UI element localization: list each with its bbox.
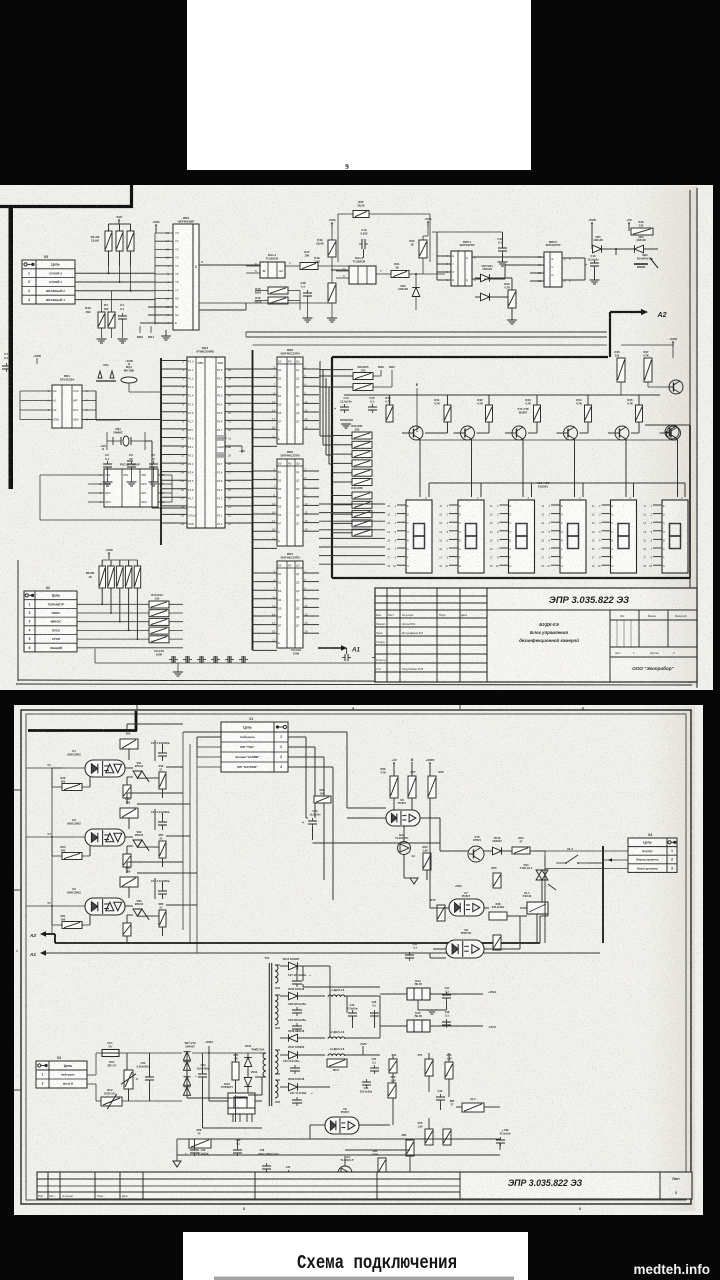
ground under C4	[118, 339, 128, 343]
arrow A1 sheet2	[40, 950, 46, 955]
wires C27 to diode rail	[296, 966, 298, 981]
wires right cluster verticals	[347, 807, 386, 809]
resistor below U2	[123, 854, 131, 867]
wires transistor bases	[447, 422, 449, 433]
node dots on X5 wires	[108, 272, 110, 274]
arrow A2 sheet2	[40, 931, 46, 936]
7-seg indicator HG6	[662, 500, 688, 573]
wires channel U3	[125, 905, 133, 907]
ground under R23	[507, 320, 517, 324]
wires U8 to A1	[430, 957, 446, 959]
wire R18 node to DA1.2	[332, 269, 348, 271]
wires right resistors	[393, 766, 395, 776]
title block row lines	[375, 617, 487, 619]
svg-text:9: 9	[345, 163, 349, 171]
wires DA2	[209, 1100, 228, 1102]
wires DD4 right pins	[225, 368, 252, 370]
title block left small rows	[375, 595, 487, 597]
ground under regulators	[427, 1010, 437, 1014]
sheet1 right border	[689, 190, 691, 683]
diode VD14	[289, 962, 298, 970]
vertical wire right cluster	[588, 862, 603, 864]
sheet1 noise	[0, 186, 712, 689]
arrow A2 sheet1	[609, 312, 611, 357]
wire DD6.2 outputs right	[574, 257, 585, 259]
title block2 small texts	[38, 1194, 128, 1198]
wires DD8 outputs to R24	[319, 369, 353, 371]
caption cut second line	[214, 1277, 514, 1280]
thick box around display section	[332, 356, 608, 358]
vertical feed DD6.1 inputs	[436, 232, 438, 280]
wires to right section	[183, 731, 347, 733]
wires R15 R16	[288, 290, 300, 292]
wire VS4 down to A2 bus	[541, 890, 543, 902]
7-seg indicator HG3	[509, 500, 535, 573]
title block2 sheet cell	[659, 1172, 661, 1199]
wires DD4 left pins	[161, 360, 187, 362]
wires X4	[545, 850, 628, 852]
sheet1 corner scan line	[0, 205, 133, 208]
7-seg indicator HG4	[560, 500, 586, 573]
wire K11 to bus	[536, 914, 538, 943]
title block sheet1	[375, 588, 697, 682]
ground under C48	[303, 318, 313, 322]
resistor below U1	[123, 785, 131, 798]
ground bottom left	[173, 672, 183, 676]
7-seg indicator HG5	[611, 500, 637, 573]
wires X2 rows	[77, 603, 183, 605]
ground under C14	[341, 424, 351, 428]
scan edge bar left	[9, 207, 14, 489]
wires DD3 select pins	[154, 299, 156, 325]
wires U7 U8 left	[430, 907, 449, 909]
title block right section	[609, 610, 611, 682]
top white box	[187, 0, 531, 170]
svg-text:Схема подключения: Схема подключения	[297, 1252, 457, 1274]
sheet 1 paper	[0, 185, 713, 690]
wire A1 bus	[46, 952, 600, 954]
wire long mid bus b	[246, 331, 607, 333]
transformer primary connections	[261, 1052, 263, 1054]
wires under DD1 to DD4	[95, 391, 97, 420]
ground under C16	[590, 280, 600, 284]
heavy bus left of DD8	[252, 350, 254, 650]
wires bottom middle	[177, 1138, 189, 1140]
wire R25 feedback	[338, 213, 353, 215]
bottom white box	[183, 1232, 528, 1280]
wires regulators	[380, 993, 407, 995]
sheet1 left border	[17, 560, 19, 681]
wires X3 right	[87, 1074, 96, 1076]
sheet2 streak overlay	[645, 706, 695, 1211]
wires DD6 DD7 to displays	[319, 503, 385, 505]
wires DD2 loop	[40, 474, 88, 476]
wires C6 caps to ground rail	[173, 656, 175, 663]
transistor VT7	[669, 380, 683, 394]
ground under R4	[97, 339, 107, 343]
secondary ground rail	[303, 986, 380, 988]
wire long mid bus a	[199, 302, 332, 304]
ground under R19	[327, 318, 337, 322]
wire display power rail	[344, 394, 660, 396]
heavy node line X4	[602, 846, 604, 943]
wire DA1 outputs bus	[199, 309, 246, 311]
wire bottom caps	[248, 662, 470, 664]
wire mid bus d	[253, 344, 608, 346]
sheet2 border	[21, 710, 691, 1204]
grounds under C2 C3 C5	[103, 482, 113, 486]
wire +5VA to DD3	[155, 226, 157, 233]
svg-text:medteh.info: medteh.info	[634, 1262, 711, 1277]
ground DD3	[161, 336, 171, 340]
wire E row horizontal	[417, 439, 677, 441]
ground open under DA6	[410, 878, 418, 884]
verticals DD8 to resistor banks	[319, 361, 321, 436]
wires X1 bus down	[196, 737, 198, 757]
grey fill pins EA ALE PSEN	[216, 435, 225, 441]
wires right lower	[428, 1053, 430, 1059]
wire channels common to A2 bus	[51, 768, 53, 934]
wires battery node	[591, 226, 593, 244]
sheet 2 paper	[14, 705, 703, 1215]
wires channel U2	[125, 836, 133, 838]
wires right transistors	[621, 344, 673, 346]
wires VT9 node	[440, 850, 468, 852]
vertical wires secondary rails	[302, 966, 304, 981]
transistor row VT1-VT6	[409, 426, 423, 440]
wires around ZQ1	[106, 432, 108, 450]
wire BQ1 to DD4	[159, 391, 161, 393]
wires X5 rows vertical joins	[108, 251, 110, 273]
wire A2 bus extension	[539, 916, 541, 943]
wires channel U1	[125, 767, 133, 769]
title block sheet2	[37, 1172, 692, 1199]
wire long mid bus c	[246, 336, 607, 338]
transistor VT8	[665, 425, 679, 439]
ground open under DA2	[173, 1161, 181, 1167]
resistor below U3	[123, 923, 131, 936]
TV1 primary winding	[263, 1053, 266, 1077]
sheet2 noise	[15, 706, 702, 1214]
sheet2 corner scan line	[28, 729, 137, 732]
wires X1 left	[197, 736, 221, 738]
7-seg indicator HG1	[406, 500, 432, 573]
wire DA2 bottom rail	[177, 1154, 500, 1156]
wire ZQ1 to DD4 xtal	[145, 440, 152, 442]
wire DD3 Z to DA1	[199, 264, 246, 266]
7-seg indicator HG2	[458, 500, 484, 573]
ground under C47	[498, 262, 508, 266]
wires X5 to DD3	[75, 272, 155, 274]
vertical collector wires	[182, 732, 184, 930]
sheet2 side ticks	[14, 789, 21, 791]
wire top rail to C47	[432, 231, 503, 233]
wire DD3 left collector	[154, 233, 156, 300]
wire X1 row1 bus	[197, 736, 221, 738]
wire X2 common	[94, 649, 96, 663]
sheet1 bottom border	[18, 680, 690, 682]
relay K1.2	[462, 1103, 484, 1112]
capacitor row right	[342, 654, 351, 661]
TV1 secondary windings	[275, 965, 278, 983]
wires DD6.1 to DD6.2	[484, 256, 530, 258]
heavy wire A2 bus	[55, 942, 540, 944]
arrow A1 sheet1	[318, 647, 341, 649]
wires channels to verticals	[166, 766, 183, 768]
long wire bottom	[262, 1138, 500, 1140]
heavy bus left of DD4	[160, 358, 162, 545]
